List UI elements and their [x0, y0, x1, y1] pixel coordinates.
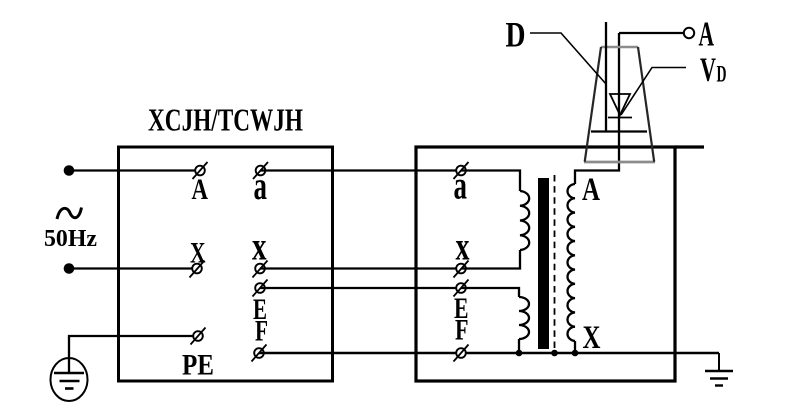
- wire phase A from source to terminal A: [69, 169, 200, 171]
- terminal A (left box): [192, 162, 209, 206]
- terminal E (right box): [454, 280, 469, 326]
- svg-text:A: A: [699, 15, 715, 54]
- svg-text:F: F: [455, 314, 469, 347]
- wire E (left box) to E (right box): [260, 287, 461, 289]
- wire x (left box) to x (right box): [260, 267, 461, 269]
- terminal F (left box): [252, 315, 269, 362]
- wire F / earth bus from F (left box) through right box to right ground: [259, 352, 719, 354]
- terminal E (left box): [253, 280, 268, 327]
- leader line from VD to diode: [621, 68, 686, 116]
- terminal PE (left box): [182, 328, 214, 382]
- svg-text:x: x: [456, 224, 470, 269]
- terminal A open circle (top right): [684, 28, 694, 38]
- terminal F (right box): [454, 314, 469, 362]
- wire a (right box) to primary winding top: [461, 171, 520, 192]
- junction dot primary-bus: [516, 350, 523, 357]
- svg-text:A: A: [582, 172, 600, 208]
- AC source top terminal dot: [64, 165, 75, 176]
- terminal X (left box): [190, 237, 206, 278]
- svg-text:50Hz: 50Hz: [44, 226, 97, 252]
- junction dot dashed-line to bus: [551, 350, 558, 357]
- terminal a (left box): [253, 162, 268, 208]
- junction dot secondary-bus: [572, 350, 579, 357]
- primary winding lower coil (E-F): [519, 297, 529, 339]
- wire secondary top to bushing conductor: [575, 33, 619, 184]
- terminal x (right box): [454, 224, 470, 278]
- transformer core bar: [538, 178, 549, 349]
- box test transformer tank: [416, 147, 675, 381]
- leader line from D to tap electrode: [530, 33, 606, 84]
- svg-text:A: A: [192, 173, 209, 206]
- svg-text:D: D: [506, 15, 526, 55]
- box XCJH/TCWJH (test transformer control box): [119, 147, 333, 381]
- discharge device diode VD: [608, 94, 632, 118]
- primary winding upper coil (a-x): [520, 191, 529, 250]
- svg-text:PE: PE: [182, 349, 214, 382]
- svg-text:V: V: [700, 52, 716, 89]
- svg-text:a: a: [454, 163, 468, 208]
- bushing insulator trapezoid: [584, 47, 655, 162]
- core dashed line: [554, 175, 556, 353]
- ground electrode right: [705, 353, 733, 386]
- terminal x (left box): [252, 224, 268, 278]
- svg-text:X: X: [190, 237, 206, 270]
- svg-text:x: x: [252, 224, 267, 269]
- svg-text:D: D: [717, 62, 727, 87]
- wire secondary bottom to earth bus: [574, 341, 576, 353]
- wire primary upper coil bottom to terminal x: [461, 250, 520, 269]
- AC source bottom terminal dot: [64, 263, 75, 274]
- bushing tap electrode D vertical line: [605, 22, 607, 132]
- svg-text:X: X: [583, 320, 601, 356]
- bushing lower electrode plate: [591, 130, 647, 132]
- wire bushing conductor to terminal A (top): [619, 32, 684, 34]
- wire primary lower coil bottom to earth bus: [518, 339, 520, 353]
- svg-text:F: F: [255, 315, 268, 348]
- wire PE from ground to terminal PE: [69, 336, 198, 373]
- AC source symbol ~: [57, 208, 82, 220]
- wire a (left box) to a (right box): [261, 169, 462, 171]
- svg-text:XCJH/TCWJH: XCJH/TCWJH: [148, 102, 303, 138]
- secondary winding coil (A-X): [568, 184, 575, 341]
- wire phase X from source to terminal X: [69, 267, 197, 269]
- tank top edge extension: [675, 145, 704, 148]
- terminal a (right box): [454, 162, 469, 208]
- ground electrode left (protective earth circle symbol): [51, 358, 88, 401]
- wire E to primary lower coil top: [461, 288, 519, 297]
